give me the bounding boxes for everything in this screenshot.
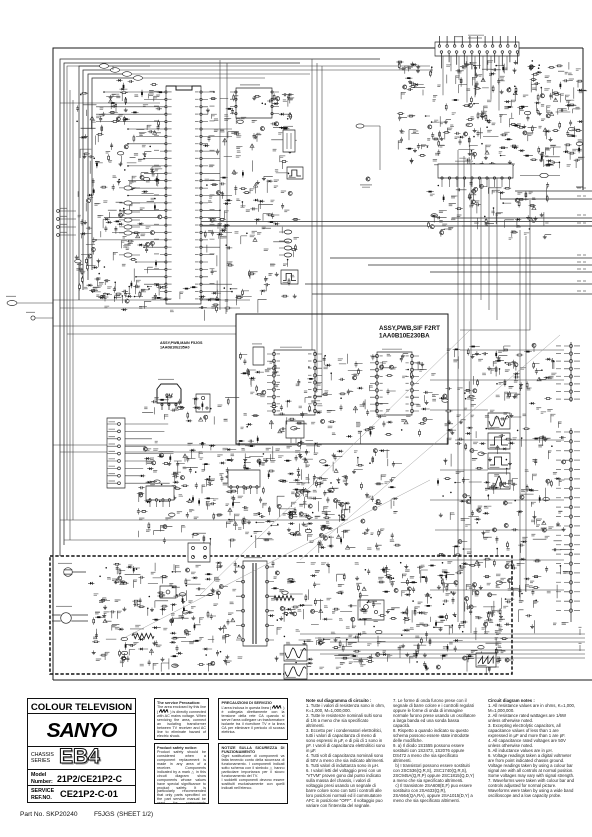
connector pills column P1 xyxy=(119,186,140,257)
waveform W2 xyxy=(281,270,298,284)
chassis series EB4 xyxy=(28,747,135,770)
resistor R801 fusible xyxy=(130,629,154,639)
connector CN502 CRT lower xyxy=(556,428,580,622)
component cluster below IC201 xyxy=(426,173,560,239)
wire inner frame loops xyxy=(60,59,380,556)
title block colour television xyxy=(27,698,136,803)
component cluster below IC101 xyxy=(96,283,231,321)
wire left bus rows xyxy=(53,103,340,540)
component cluster mid column xyxy=(239,170,300,313)
wire top signal buses with connector pills xyxy=(79,64,433,300)
component cluster chroma section xyxy=(137,440,350,549)
component cluster power primary xyxy=(88,561,242,671)
op-amp IC201 horizontal IC xyxy=(438,161,513,187)
component cluster SIF internals xyxy=(240,353,439,444)
waveform W1 xyxy=(287,167,303,179)
wire right vertical risers xyxy=(458,150,530,633)
resistor R802 xyxy=(274,596,294,601)
model number row xyxy=(28,770,135,786)
wire vertical buses to SIF xyxy=(220,59,322,396)
connector AV terminals xyxy=(57,208,76,236)
notes column english xyxy=(488,698,578,798)
wire main board outer frame xyxy=(53,48,592,680)
waveform W4 xyxy=(488,433,510,449)
connector AC plug mains input xyxy=(52,606,88,623)
wire mid horizontal buses xyxy=(201,222,592,227)
waveform W9 sawtooth xyxy=(476,653,496,667)
svg-text:ASSY,PWB,MAIN F5JGS: ASSY,PWB,MAIN F5JGS xyxy=(160,341,203,345)
transistor Q201 xyxy=(356,124,380,187)
connector pills column P2 xyxy=(279,230,292,257)
svg-text:ASSY,PWB,SIF F2RT: ASSY,PWB,SIF F2RT xyxy=(379,325,440,332)
wire bottom bus lines xyxy=(300,627,585,658)
op-amp IC601 SIF processor xyxy=(267,347,322,415)
wire SIF board outline xyxy=(236,314,448,444)
component cluster video out xyxy=(295,449,402,553)
waveform W8 xyxy=(284,664,307,679)
waveform W7 xyxy=(284,645,307,661)
op-amp IC302 xyxy=(146,486,174,507)
wire hot area dashed boundary xyxy=(50,556,512,674)
note box product safety xyxy=(154,743,209,804)
connector AC plug upper xyxy=(58,563,86,576)
waveform W3 xyxy=(488,413,510,429)
connector CN601 header xyxy=(435,35,519,71)
note box precauzioni di servizio xyxy=(218,698,288,740)
part number line xyxy=(20,811,78,818)
waveform W5 xyxy=(488,453,510,469)
op-amp IC101 jungle IC xyxy=(154,86,215,304)
crystal X602 discriminator xyxy=(286,421,304,443)
component cluster right of IC101 xyxy=(203,98,252,306)
op-amp IC602 audio amp xyxy=(370,349,419,415)
component cluster deflection right xyxy=(430,343,574,633)
crystal X101 SAW filter xyxy=(283,126,295,152)
note box service precaution xyxy=(154,698,209,740)
waveform W6 xyxy=(488,473,510,489)
component cluster around regulator xyxy=(142,394,239,425)
notes column italian 2 xyxy=(393,698,477,803)
component cluster around IC102 xyxy=(223,93,297,171)
wire IC101 pin feed wires xyxy=(95,91,233,299)
svg-text:1AA0B10E235A0: 1AA0B10E235A0 xyxy=(160,346,190,350)
connector antenna input pill xyxy=(6,296,53,320)
connector CN501 CRT upper xyxy=(556,342,580,402)
transformer T801 xyxy=(236,558,274,646)
transistor Q601 regulator 9V xyxy=(157,379,181,410)
connector CN201 9pin xyxy=(107,418,174,488)
note box notizie sicurezza xyxy=(218,743,288,804)
wire output lines to right edge xyxy=(305,188,592,294)
notes column italian 1 xyxy=(306,698,386,808)
SANYO logo xyxy=(28,714,135,747)
crystal X601 ceramic filter xyxy=(252,344,264,365)
component cluster tuner AGC xyxy=(396,56,587,171)
relay RL801 photocoupler xyxy=(188,543,210,562)
op-amp IC301 delay line xyxy=(228,470,260,494)
op-amp IC102 video amp xyxy=(230,85,279,118)
svg-text:1AA0B10E230BA: 1AA0B10E230BA xyxy=(379,332,430,339)
component cluster IF video section xyxy=(75,79,165,309)
wire fold diagonals xyxy=(120,330,560,640)
component cluster power secondary xyxy=(268,561,514,674)
service ref row xyxy=(28,786,135,802)
